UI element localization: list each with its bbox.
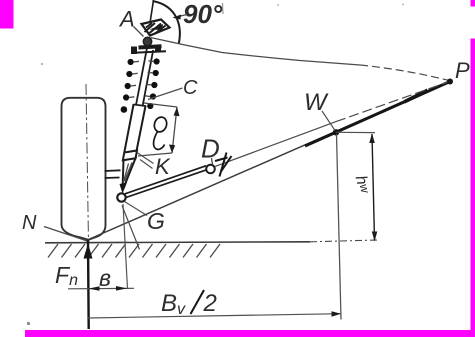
rho value label [152,116,168,150]
scan border magenta square top-left [0,0,14,29]
strut collar band [123,151,137,161]
mount pivot circle [143,37,151,45]
svg-text:N: N [22,212,37,234]
svg-text:Fn: Fn [55,262,78,289]
Fn force arrow [87,240,90,329]
svg-text:G: G [147,208,165,234]
90 degree arc [153,1,180,44]
thick overlay W to P [305,82,450,147]
svg-text:W: W [304,89,329,116]
C leader [148,88,183,100]
scan border magenta strip right top segment [471,0,475,7]
line A to P (sagging scan curve) [151,38,361,66]
thick blob near P [404,89,427,104]
svg-text:A: A [118,7,135,32]
top mount bracket U1 [142,20,170,36]
scan border magenta bottom bar [25,330,475,337]
svg-text:P: P [455,58,470,83]
scan smudge [27,322,30,325]
strut axis extension line above mount [150,0,154,23]
spring dimension box [138,103,177,156]
svg-text:C: C [183,77,198,99]
svg-text:D: D [201,134,220,164]
svg-text:hw: hw [352,174,373,196]
K leaders [137,153,154,164]
A leader [134,27,144,37]
strut upper rod [136,49,147,105]
nib tip dark [120,183,128,194]
ground line [45,242,310,243]
N leader [44,227,88,242]
W vertical extension [337,134,342,320]
svg-text:Bv: Bv [161,290,186,318]
coil spring dots right column [147,58,160,109]
spring dot ticks [129,61,154,98]
stub axle upper line [105,169,121,172]
line D to P [215,122,336,167]
stub axle lower line [105,177,120,180]
Bv/2 dimension line [88,314,341,318]
W leader [322,111,335,131]
P point [447,79,453,85]
scan border magenta strip right long segment [471,39,475,337]
D fork symbol [215,153,232,177]
W horizontal line [336,131,375,133]
strut outer tube [124,104,133,153]
svg-text:90°: 90° [183,0,223,29]
wheel tyre outline [62,98,106,240]
ground line faint extension [310,240,378,242]
scan speck marks [222,3,225,14]
dimension b line [68,287,134,290]
svg-text:в: в [99,265,111,291]
W point [333,129,339,135]
strut lower nib [123,158,136,190]
G leader [125,202,148,216]
G vertical extension [123,204,128,289]
G stray line [122,206,140,250]
hw dimension line [372,134,375,241]
90deg leader arrow [174,15,187,18]
tie rod end circle D [206,165,215,174]
coil spring dots left column [121,59,134,113]
tie rod G to D double line [125,166,206,194]
ground hatching [48,244,220,258]
svg-text:K: K [155,154,171,179]
line contact to P through W [89,82,451,240]
spring seat plate [139,46,162,47]
wheel centerline [86,84,89,243]
ball joint G circle [117,193,125,201]
svg-text:2: 2 [203,290,217,317]
